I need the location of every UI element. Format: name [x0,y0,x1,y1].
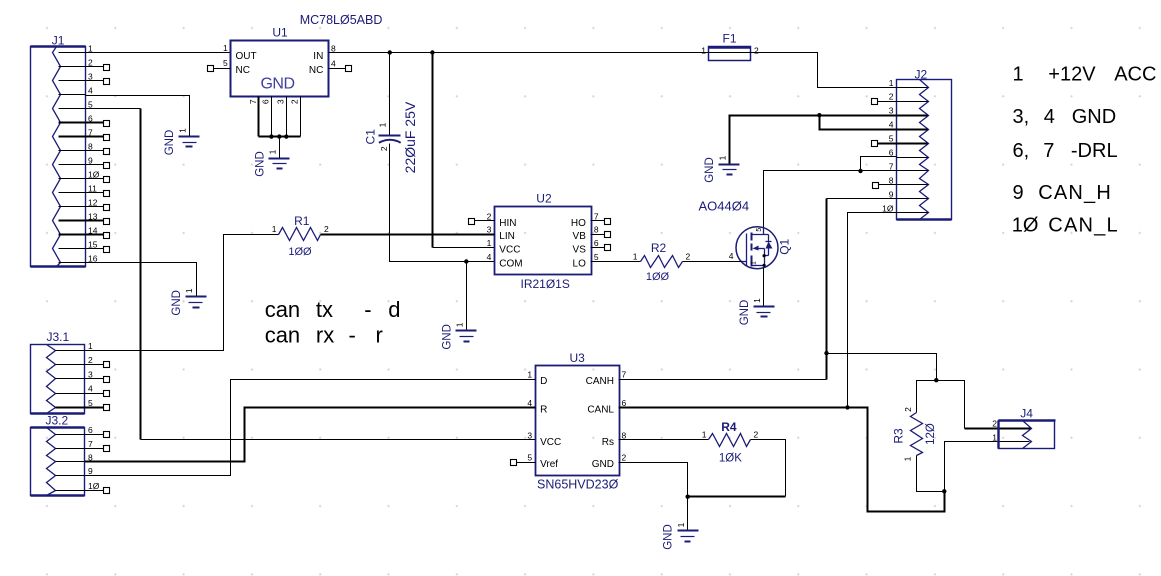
svg-text:2: 2 [754,46,759,56]
U1 pin numbers [223,43,336,104]
C1 pin numbers [377,122,389,151]
svg-text:3: 3 [276,99,286,104]
svg-text:1: 1 [903,456,913,461]
svg-text:15: 15 [88,240,98,250]
wire J2.3 J2.4 to GND [730,113,897,165]
svg-text:CAN_L: CAN_L [1048,215,1118,237]
U2 pin numbers [487,212,599,263]
text note 6, 7 -DRL [1013,140,1118,162]
svg-text:IR21Ø1S: IR21Ø1S [521,277,570,291]
svg-text:MC78LØ5ABD: MC78LØ5ABD [300,13,383,27]
svg-text:J1: J1 [52,34,65,48]
svg-text:8: 8 [889,175,894,185]
wire J1.5 stub [86,108,141,110]
wire CAN_H branch to R3 top [827,354,937,381]
wire U2.LO to R2.1 [591,261,641,263]
wire R3.1 to CAN_L node [917,456,945,492]
svg-text:5: 5 [594,252,599,262]
svg-text:8: 8 [594,225,599,235]
svg-text:OUT: OUT [236,51,257,62]
svg-text:6: 6 [261,99,271,104]
svg-text:GND: GND [704,157,716,183]
wire Q1 source to GND [763,268,765,307]
svg-text:1: 1 [377,122,387,127]
svg-text:4: 4 [1044,106,1055,128]
svg-text:LIN: LIN [499,231,515,242]
J2.8 terminal [873,183,897,189]
svg-text:1: 1 [272,224,277,234]
svg-text:9: 9 [88,156,93,166]
svg-text:8: 8 [88,452,93,462]
svg-text:2: 2 [686,252,691,262]
svg-text:U3: U3 [570,351,586,365]
svg-text:6: 6 [88,425,93,435]
gate driver U2 IR2101S [495,207,592,275]
resistor R1 [279,228,321,241]
svg-text:J3.1: J3.1 [47,330,70,344]
svg-text:J2: J2 [915,67,928,81]
U2.HIN terminal [469,219,495,225]
J1 pin numbers [88,44,100,264]
J2 pin numbers [882,78,894,214]
resistor R2 [641,256,683,268]
svg-text:9: 9 [88,466,93,476]
svg-text:GND: GND [441,324,453,350]
svg-text:1: 1 [184,288,194,293]
capacitor C1 [379,136,401,143]
wire J1.16 to GND [86,263,197,297]
connector J3.1 [31,345,85,414]
svg-text:6: 6 [88,114,93,124]
svg-text:1: 1 [752,298,762,303]
svg-text:GND: GND [260,76,294,93]
svg-text:d: d [388,297,400,322]
svg-text:NC: NC [309,65,323,76]
svg-text:R2: R2 [651,241,667,255]
svg-text:6: 6 [594,238,599,248]
svg-text:CANH: CANH [586,376,614,387]
text note 3, 4 GND [1013,106,1117,128]
R2 pin numbers [633,252,691,262]
wire R4.2 loop to GND junction [688,440,786,497]
svg-text:U2: U2 [536,191,552,205]
ground GND at Q1 [739,298,775,325]
J3.1 pin stubs [56,351,110,411]
svg-text:-DRL: -DRL [1071,140,1118,162]
wire J1.5 down (VCC net vertical) [140,109,142,440]
svg-text:CANL: CANL [587,404,614,415]
svg-text:13: 13 [88,212,98,222]
svg-text:can: can [265,297,300,322]
svg-text:1: 1 [701,46,706,56]
wire J3-2.8 to U3.R [85,408,536,462]
svg-text:1Ø: 1Ø [88,481,100,491]
text note can tx - d [265,297,401,322]
svg-text:VB: VB [573,231,587,242]
connector J1 [31,47,86,267]
svg-text:GND: GND [739,300,751,326]
svg-text:7: 7 [88,128,93,138]
svg-text:Vref: Vref [540,459,558,470]
wire J4.1 [945,442,1030,492]
wire VCC net to U3.VCC [141,439,536,441]
U3.Vref terminal [511,460,536,466]
regulator U1 MC78L05ABD [208,41,352,97]
svg-text:5: 5 [889,134,894,144]
R1 pin numbers [272,224,329,234]
connector J3.2 [31,428,85,496]
wire U1 bottom pins 7,6,3,2 to common bar [259,97,301,159]
svg-text:J4: J4 [1020,407,1033,421]
svg-text:2: 2 [992,419,997,429]
text note 1 +12V ACC [1013,64,1157,86]
connector J4 [999,421,1056,449]
wire J3-2.9 to U3.D [85,380,536,476]
svg-text:11: 11 [88,184,97,194]
svg-text:1: 1 [1013,64,1024,86]
svg-text:7: 7 [88,439,93,449]
svg-text:R3: R3 [891,428,905,444]
wire U3.Rs to R4.1 [619,439,709,441]
svg-text:5: 5 [223,58,228,68]
U2.HO terminal [591,219,611,225]
svg-text:12: 12 [88,198,98,208]
svg-text:1ØK: 1ØK [719,453,742,465]
svg-text:D: D [540,376,547,387]
svg-text:1ØØ: 1ØØ [646,271,670,283]
svg-text:1Ø: 1Ø [88,170,100,180]
text note 9 CAN_H [1013,182,1112,204]
wire C1.2 to U2.COM [390,144,495,262]
wire R3.2 to CAN_H node [917,378,965,429]
fuse F1 [709,47,751,61]
svg-text:3: 3 [487,225,492,235]
svg-text:2: 2 [88,58,93,68]
svg-text:2: 2 [290,99,300,104]
svg-text:VS: VS [573,245,587,256]
R4 pin numbers [702,430,759,440]
U2.VB terminal [591,232,611,238]
svg-text:3: 3 [889,106,894,116]
svg-text:GND: GND [1072,106,1116,128]
svg-text:R1: R1 [294,214,310,228]
wire R2.2 to Q1 gate [683,261,742,263]
svg-text:4: 4 [88,86,93,96]
svg-text:3: 3 [88,369,93,379]
svg-text:22ØuF 25V: 22ØuF 25V [402,101,418,173]
svg-text:3: 3 [88,72,93,82]
svg-text:IN: IN [313,51,323,62]
svg-text:U1: U1 [272,25,288,39]
svg-text:4: 4 [729,251,734,261]
J2.5 terminal [872,141,897,147]
transistor Q1 AO4404 [736,227,778,269]
svg-text:7: 7 [1043,140,1054,162]
resistor R4 [709,434,751,447]
svg-text:5: 5 [756,228,763,232]
svg-text:1: 1 [527,370,532,380]
svg-text:R4: R4 [721,420,737,434]
svg-text:GND: GND [171,290,183,316]
junction at C1 [388,50,392,54]
svg-text:J3.2: J3.2 [46,414,69,428]
svg-text:9: 9 [889,189,894,199]
ground GND at J2.3/4 [704,155,739,182]
svg-text:14: 14 [88,226,98,236]
svg-text:7: 7 [622,370,627,380]
svg-text:ACC: ACC [1114,64,1156,86]
svg-text:1: 1 [702,430,707,440]
text note 10 CAN_L [1012,215,1119,237]
ground GND at U2.COM [441,322,476,349]
svg-text:4: 4 [527,398,532,408]
wire J1.1 to U1.OUT (+12V) [86,52,231,54]
wire F1.2 to J2.1 [749,53,897,88]
svg-text:NC: NC [236,65,250,76]
U3 pin numbers [527,370,626,463]
J1 pin stubs and terminals [59,53,110,263]
wire R1.2 to U2.LIN [321,234,495,236]
svg-text:5: 5 [527,453,532,463]
svg-text:HIN: HIN [499,218,516,229]
wire C1.1 [389,53,391,135]
svg-text:6: 6 [622,398,627,408]
svg-text:COM: COM [499,259,522,270]
ground GND at U3 [663,522,699,549]
ground GND at J1.16 [171,288,206,315]
J2.2 terminal [872,99,897,105]
svg-text:2: 2 [754,430,759,440]
svg-text:1: 1 [676,522,686,527]
svg-text:2: 2 [88,355,93,365]
svg-text:C1: C1 [364,129,378,145]
wire VCC drop to U2.VCC [432,53,434,248]
wire J2.9 CAN_H to U3.CANH [619,199,897,380]
R3 pin numbers [903,407,914,462]
wire U3.GND to GND [619,463,690,531]
svg-text:VCC: VCC [499,245,520,256]
svg-text:1: 1 [455,322,465,327]
wire U3.CANL CAN_L run [619,408,947,512]
ground GND at U1 [254,149,289,176]
J3.1 pin numbers [88,341,93,408]
connector J2 [897,80,952,220]
wire to J4.2 [965,428,1031,430]
wire U1.IN to F1.1 [329,52,709,54]
J3.2 pin numbers [88,425,100,491]
svg-text:2: 2 [324,224,329,234]
svg-text:R: R [540,404,547,415]
transceiver U3 SN65HVD230 [536,366,620,476]
svg-text:Q1: Q1 [778,238,792,254]
svg-text:CAN_H: CAN_H [1038,182,1112,204]
svg-text:6,: 6, [1013,140,1030,162]
wire J2.7 to Q1 drain [764,171,897,228]
svg-text:rx: rx [316,322,334,347]
svg-text:2: 2 [889,92,894,102]
svg-text:7: 7 [248,99,258,104]
svg-text:GND: GND [164,130,176,156]
junction at U2.COM / GND [464,259,468,263]
svg-text:Rs: Rs [602,437,614,448]
svg-text:4: 4 [889,120,894,130]
svg-text:1: 1 [717,155,727,160]
svg-text:1: 1 [750,261,757,265]
J3.2 pin stubs [56,432,110,494]
svg-text:1: 1 [487,238,492,248]
svg-text:1: 1 [177,128,187,133]
svg-text:2: 2 [379,146,389,151]
ground GND at J1.4 [164,128,199,155]
svg-text:GND: GND [254,151,266,177]
svg-text:9: 9 [1013,182,1024,204]
svg-text:1: 1 [992,433,997,443]
svg-text:1: 1 [633,252,638,262]
svg-text:1: 1 [889,78,894,88]
svg-text:3,: 3, [1013,106,1030,128]
wire J2.6 join [858,157,896,174]
svg-text:5: 5 [88,398,93,408]
wire J2.10 CAN_L drop [845,213,896,410]
svg-text:GND: GND [663,524,675,550]
junction at VCC drop [430,50,434,54]
svg-text:2: 2 [622,453,627,463]
svg-text:AO44Ø4: AO44Ø4 [699,198,750,213]
svg-text:LO: LO [573,259,587,270]
svg-text:1Ø: 1Ø [1012,215,1039,237]
svg-text:4: 4 [88,384,93,394]
svg-text:3: 3 [527,430,532,440]
svg-text:F1: F1 [723,32,737,46]
wire J1.4 to GND [86,96,190,137]
svg-text:HO: HO [571,218,586,229]
svg-text:VCC: VCC [540,437,561,448]
J4 pin numbers [992,419,997,443]
svg-text:+12V: +12V [1048,64,1096,86]
U2.VS terminal [591,245,611,251]
svg-text:1Ø: 1Ø [882,203,894,213]
wire COM to GND [466,262,468,331]
resistor R3 [911,413,923,456]
svg-text:r: r [376,322,383,347]
svg-text:GND: GND [592,459,614,470]
svg-text:SN65HVD23Ø: SN65HVD23Ø [537,478,619,492]
svg-text:1ØØ: 1ØØ [288,246,312,258]
svg-text:4: 4 [487,252,492,262]
svg-text:1: 1 [268,149,278,154]
J2 pin inner stubs [897,88,928,213]
svg-text:can: can [265,322,300,347]
svg-text:1: 1 [223,43,228,53]
svg-text:-: - [364,297,371,322]
svg-text:12Ø: 12Ø [925,423,937,445]
text note can rx - r [265,322,383,347]
wire J3-1.1 to R1.1 [85,235,279,351]
svg-text:2: 2 [903,407,913,412]
svg-text:8: 8 [622,430,627,440]
svg-text:1: 1 [88,341,93,351]
svg-text:tx: tx [316,297,333,322]
svg-text:8: 8 [88,142,93,152]
svg-text:4: 4 [331,59,336,69]
F1 pin numbers [701,46,759,56]
svg-text:-: - [349,322,356,347]
